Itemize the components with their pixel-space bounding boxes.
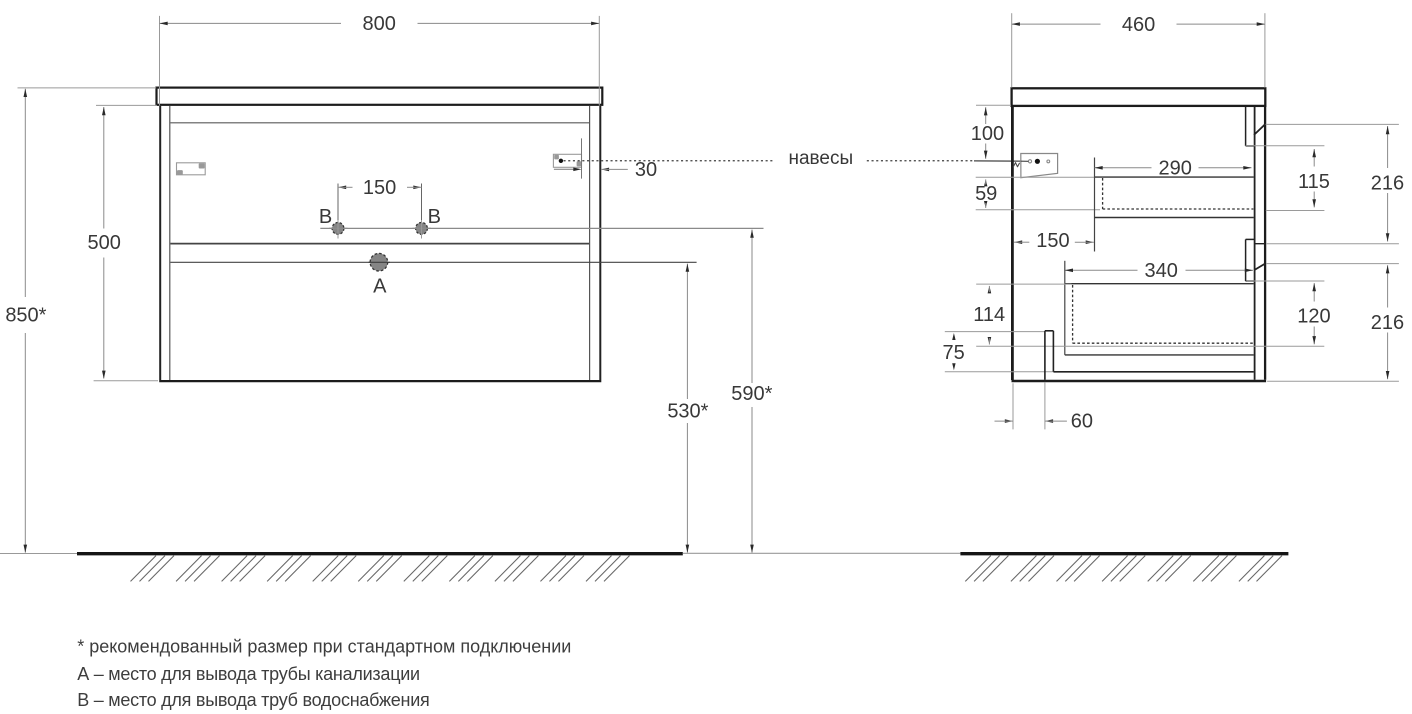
svg-text:В – место для вывода труб водо: В – место для вывода труб водоснабжения (77, 690, 429, 710)
svg-text:120: 120 (1297, 306, 1330, 328)
svg-text:А – место для вывода трубы кан: А – место для вывода трубы канализации (77, 664, 420, 684)
svg-text:75: 75 (942, 342, 964, 364)
svg-text:290: 290 (1159, 157, 1192, 179)
svg-text:B: B (319, 206, 332, 228)
svg-text:850*: 850* (5, 305, 46, 327)
svg-text:800: 800 (363, 13, 396, 35)
svg-text:114: 114 (973, 304, 1005, 326)
svg-text:A: A (373, 275, 387, 297)
svg-text:* рекомендованный размер при с: * рекомендованный размер при стандартном… (77, 636, 571, 656)
svg-text:216: 216 (1371, 312, 1404, 334)
svg-text:59: 59 (975, 183, 997, 205)
svg-text:150: 150 (363, 177, 396, 199)
svg-text:30: 30 (635, 159, 657, 181)
svg-text:340: 340 (1145, 260, 1178, 282)
svg-text:590*: 590* (731, 383, 772, 405)
svg-text:60: 60 (1071, 411, 1093, 433)
svg-text:B: B (428, 206, 441, 228)
svg-text:530*: 530* (667, 400, 708, 422)
svg-text:150: 150 (1036, 230, 1069, 252)
svg-text:навесы: навесы (788, 148, 853, 169)
svg-text:500: 500 (88, 232, 121, 254)
svg-text:216: 216 (1371, 172, 1404, 194)
svg-text:115: 115 (1298, 171, 1330, 193)
svg-text:460: 460 (1122, 14, 1155, 36)
svg-text:100: 100 (971, 123, 1004, 145)
